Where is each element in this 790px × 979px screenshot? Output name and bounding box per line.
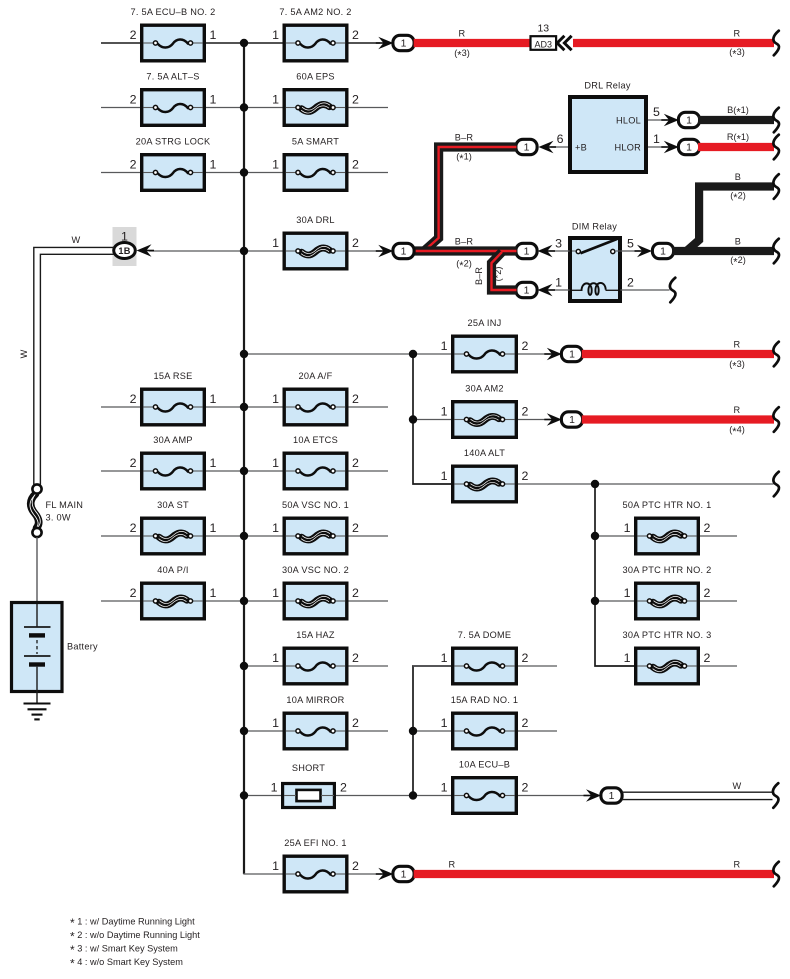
junction ptc ALT <box>591 480 599 488</box>
connector oval DRL +B <box>516 139 537 154</box>
wire B(*1) black <box>698 105 774 120</box>
wire R(*3) row1 right <box>573 29 774 61</box>
connector oval ECU-B <box>601 788 622 803</box>
svg-text:5A SMART: 5A SMART <box>292 137 339 147</box>
junction bus row5 <box>240 350 248 358</box>
svg-text:R: R <box>734 405 741 415</box>
svg-text:1: 1 <box>524 143 530 154</box>
svg-text:1: 1 <box>569 350 575 361</box>
svg-text:2: 2 <box>522 781 529 795</box>
wire B-R *1 to DRL +B <box>424 147 517 251</box>
arrow AM2 out <box>544 413 562 425</box>
svg-text:R: R <box>734 29 741 39</box>
ground <box>24 704 51 720</box>
svg-text:7. 5A ECU–B NO. 2: 7. 5A ECU–B NO. 2 <box>131 7 216 17</box>
svg-text:13: 13 <box>537 23 549 35</box>
svg-text:1: 1 <box>441 781 448 795</box>
fuse 60A EPS <box>272 72 359 126</box>
svg-text:40A P/I: 40A P/I <box>157 565 188 575</box>
svg-text:2: 2 <box>130 28 137 42</box>
fuse 30A DRL <box>272 215 359 269</box>
svg-text:1: 1 <box>524 286 530 297</box>
svg-text:2: 2 <box>522 405 529 419</box>
wire HLOR stub <box>648 146 667 148</box>
connector oval DIM5 <box>652 243 673 258</box>
arrow into DIM pin1 <box>538 284 556 296</box>
svg-text:AD3: AD3 <box>535 39 553 49</box>
fuse 10A MIRROR <box>272 695 359 749</box>
continuation DIM pin2 <box>670 278 676 303</box>
wire B(*2) lower <box>673 237 775 269</box>
wire col3 sub-bus upper <box>413 354 451 484</box>
svg-text:1: 1 <box>441 469 448 483</box>
DIM coil <box>572 283 618 295</box>
wire row6 RSE/AF <box>101 406 388 408</box>
svg-text:1: 1 <box>272 859 279 873</box>
svg-text:R: R <box>459 29 466 39</box>
junction bus row10 <box>240 662 248 670</box>
svg-text:2: 2 <box>130 586 137 600</box>
svg-text:1: 1 <box>272 28 279 42</box>
wire row7 AMP/ETCS <box>101 470 388 472</box>
svg-text:HLOL: HLOL <box>616 116 641 126</box>
arrow EFI out <box>376 868 394 880</box>
fuse 40A P/I <box>130 565 217 619</box>
svg-text:15A RSE: 15A RSE <box>153 371 192 381</box>
fuse 50A VSC NO.1 <box>272 500 359 554</box>
arrow ECU-B out <box>584 789 602 801</box>
label B-R (*2) <box>455 237 474 272</box>
connector oval DIM3 <box>516 243 537 258</box>
svg-text:1: 1 <box>686 143 692 154</box>
svg-text:1: 1 <box>272 456 279 470</box>
wire row4 1B to DRL fuse <box>149 250 381 252</box>
svg-text:1: 1 <box>271 781 278 795</box>
svg-text:1: 1 <box>210 392 217 406</box>
svg-text:1: 1 <box>441 339 448 353</box>
fuse 20A STRG LOCK <box>130 137 217 191</box>
svg-text:20A STRG LOCK: 20A STRG LOCK <box>136 137 211 147</box>
svg-text:10A ETCS: 10A ETCS <box>293 435 338 445</box>
junction bus row12 <box>240 791 248 799</box>
wire row9 P-I/VSC2/PTC2 <box>101 600 737 602</box>
svg-text:B–R: B–R <box>474 267 484 285</box>
svg-text:HLOR: HLOR <box>614 143 641 153</box>
wire AM2 30A row <box>413 419 550 421</box>
connector oval HLOL <box>678 112 699 127</box>
fuse 15A RAD NO.1 <box>441 695 529 749</box>
svg-text:W: W <box>72 235 81 245</box>
svg-text:B–R: B–R <box>455 237 474 247</box>
svg-text:2: 2 <box>130 521 137 535</box>
svg-text:1: 1 <box>653 132 660 146</box>
arrow into 1B <box>137 244 155 256</box>
arrow DRL out <box>376 245 394 257</box>
fuse 7.5A ALT-S <box>130 72 217 126</box>
svg-text:W: W <box>19 349 29 358</box>
continuation ALT <box>773 472 779 497</box>
svg-text:Battery: Battery <box>67 642 98 652</box>
arrow into DRL +B <box>539 141 557 153</box>
fuse 7.5A AM2 NO.2 <box>272 7 359 61</box>
svg-text:5: 5 <box>627 237 634 251</box>
continuation row1 <box>773 31 779 56</box>
DIM switch contact <box>572 239 620 254</box>
connector oval HLOR <box>678 139 699 154</box>
wire B-R *2 horizontal <box>414 246 517 255</box>
svg-text:30A AM2: 30A AM2 <box>465 384 504 394</box>
svg-text:30A AMP: 30A AMP <box>153 435 193 445</box>
svg-text:1: 1 <box>272 651 279 665</box>
wire R(*3) row1 left <box>414 29 531 62</box>
svg-text:2: 2 <box>627 276 634 290</box>
svg-text:1: 1 <box>401 39 407 50</box>
svg-text:2: 2 <box>522 716 529 730</box>
svg-text:1: 1 <box>401 247 407 258</box>
svg-text:1: 1 <box>401 870 407 881</box>
continuation W <box>773 783 779 808</box>
svg-text:2: 2 <box>522 469 529 483</box>
svg-text:2: 2 <box>352 716 359 730</box>
wire row13 bus corner to EFI <box>244 873 381 874</box>
fuse 7.5A ECU-B NO.2 <box>130 7 217 61</box>
connector oval AM2 <box>561 412 582 427</box>
wire HLOL stub <box>648 119 667 121</box>
svg-text:2: 2 <box>352 158 359 172</box>
svg-text:30A DRL: 30A DRL <box>296 215 335 225</box>
svg-text:(*2): (*2) <box>493 267 503 282</box>
fuse 30A AMP <box>130 435 217 489</box>
wire R(*4) AM2 <box>582 405 774 438</box>
connector 1B <box>113 227 137 266</box>
continuation B(*2) lower <box>773 239 779 264</box>
svg-text:2: 2 <box>704 586 711 600</box>
junction bus row2 <box>240 103 248 111</box>
svg-text:1: 1 <box>210 586 217 600</box>
svg-text:50A VSC NO. 1: 50A VSC NO. 1 <box>282 500 349 510</box>
wire row12 SHORT/ECU-B <box>244 795 589 797</box>
svg-text:1: 1 <box>272 521 279 535</box>
svg-text:R: R <box>734 340 741 350</box>
svg-text:25A INJ: 25A INJ <box>468 318 502 328</box>
wire DIM pin3 stub <box>550 250 570 252</box>
continuation AM2 <box>773 407 779 432</box>
svg-text:1: 1 <box>210 521 217 535</box>
arrow HLOR out <box>661 141 679 153</box>
svg-text:1: 1 <box>272 716 279 730</box>
svg-text:1: 1 <box>272 392 279 406</box>
fuse 5A SMART <box>272 137 359 191</box>
wire row1 ECU-B/AM2 <box>101 42 380 44</box>
svg-text:30A VSC NO. 2: 30A VSC NO. 2 <box>282 565 349 575</box>
svg-text:1: 1 <box>624 521 631 535</box>
svg-text:5: 5 <box>653 105 660 119</box>
svg-text:7. 5A ALT–S: 7. 5A ALT–S <box>146 72 199 82</box>
svg-text:1: 1 <box>686 116 692 127</box>
svg-text:20A A/F: 20A A/F <box>299 371 333 381</box>
svg-text:1: 1 <box>609 791 615 802</box>
fuse 7.5A DOME <box>441 630 529 684</box>
svg-text:15A HAZ: 15A HAZ <box>296 630 335 640</box>
svg-text:2: 2 <box>352 651 359 665</box>
svg-text:2: 2 <box>130 392 137 406</box>
label (*2) vertical <box>493 267 503 282</box>
relay DRL <box>557 81 660 173</box>
svg-text:2: 2 <box>352 93 359 107</box>
fusible link FL MAIN 3.0W <box>30 484 83 537</box>
svg-text:1: 1 <box>441 651 448 665</box>
svg-text:2: 2 <box>704 651 711 665</box>
label B-R vertical <box>474 267 484 285</box>
svg-text:2: 2 <box>522 339 529 353</box>
junction ptc row8 <box>591 532 599 540</box>
junction sub AM2 <box>409 415 417 423</box>
connector oval DIM1 <box>516 282 537 297</box>
svg-text:+B: +B <box>575 143 587 153</box>
wire DIM pin5 stub <box>620 250 640 252</box>
svg-text:1: 1 <box>569 415 575 426</box>
svg-text:7. 5A DOME: 7. 5A DOME <box>458 630 512 640</box>
fuse 140A ALT <box>441 448 529 502</box>
svg-text:2: 2 <box>352 586 359 600</box>
junction bus row7 <box>240 467 248 475</box>
wire DIM pin2 stub <box>620 289 669 291</box>
svg-text:10A ECU–B: 10A ECU–B <box>459 760 510 770</box>
relay DIM <box>555 222 634 302</box>
junction bus row8 <box>240 532 248 540</box>
svg-text:25A EFI NO. 1: 25A EFI NO. 1 <box>284 838 346 848</box>
fuse 30A VSC NO.2 <box>272 565 359 619</box>
continuation INJ <box>773 342 779 367</box>
junction sub row5 <box>409 350 417 358</box>
wire row8 ST/VSC1/PTC1 <box>101 535 737 537</box>
wire W ECU-B double <box>622 781 773 800</box>
fuse 30A ST <box>130 500 217 554</box>
arrow INJ out <box>544 348 562 360</box>
svg-text:1: 1 <box>272 93 279 107</box>
arrow HLOL out <box>661 114 679 126</box>
arrow into DIM pin3 <box>538 245 556 257</box>
wire DRL +B stub <box>551 146 568 148</box>
svg-text:B: B <box>735 237 741 247</box>
svg-text:1: 1 <box>524 247 530 258</box>
fuse 30A AM2 <box>441 384 529 438</box>
junction bus row4 <box>240 247 248 255</box>
fuse 30A PTC HTR NO.3 <box>622 630 711 684</box>
svg-text:3. 0W: 3. 0W <box>46 513 71 523</box>
svg-text:1: 1 <box>624 651 631 665</box>
wire R(*1) red <box>698 132 774 147</box>
svg-text:2: 2 <box>352 392 359 406</box>
fuse 25A EFI NO.1 <box>272 838 359 892</box>
arrow row1 out <box>376 37 394 49</box>
svg-text:10A MIRROR: 10A MIRROR <box>286 695 344 705</box>
junction bus row9 <box>240 597 248 605</box>
svg-text:2: 2 <box>130 93 137 107</box>
svg-text:30A PTC HTR NO. 2: 30A PTC HTR NO. 2 <box>622 565 711 575</box>
wire row11 MIRROR/RAD <box>244 730 557 732</box>
svg-text:2: 2 <box>340 781 347 795</box>
svg-text:DRL Relay: DRL Relay <box>584 81 630 91</box>
junction bus row3 <box>240 168 248 176</box>
svg-text:2: 2 <box>130 158 137 172</box>
continuation EFI <box>773 862 779 887</box>
continuation R(*1) <box>773 135 779 160</box>
svg-text:2: 2 <box>522 651 529 665</box>
svg-text:2: 2 <box>352 521 359 535</box>
battery <box>12 603 99 704</box>
continuation B(*2) upper <box>773 174 779 199</box>
svg-text:FL MAIN: FL MAIN <box>46 500 84 510</box>
svg-text:SHORT: SHORT <box>292 763 325 773</box>
wire ALT 140A output <box>518 483 774 485</box>
svg-text:1: 1 <box>210 28 217 42</box>
fuse 30A PTC HTR NO.2 <box>622 565 711 619</box>
wire FL MAIN to battery <box>36 537 38 604</box>
svg-text:7. 5A AM2 NO. 2: 7. 5A AM2 NO. 2 <box>279 7 351 17</box>
connector oval EFI <box>393 866 414 881</box>
svg-text:W: W <box>733 781 742 791</box>
svg-text:15A RAD NO. 1: 15A RAD NO. 1 <box>451 695 519 705</box>
fuse 50A PTC HTR NO.1 <box>622 500 711 554</box>
svg-text:B–R: B–R <box>455 133 474 143</box>
svg-text:2: 2 <box>352 28 359 42</box>
connector oval INJ <box>561 346 582 361</box>
svg-text:R: R <box>449 860 456 870</box>
continuation B(*1) <box>773 108 779 133</box>
fuse 25A INJ <box>441 318 529 372</box>
svg-text:1: 1 <box>624 586 631 600</box>
wire col3 sub-bus lower <box>413 666 451 796</box>
connector AD3 <box>531 23 557 50</box>
svg-text:1: 1 <box>210 456 217 470</box>
fuse 10A ECU-B <box>441 760 529 814</box>
connector oval row1 <box>393 35 414 50</box>
label W horizontal <box>72 235 81 245</box>
wire DIM pin1 stub <box>550 289 570 291</box>
svg-text:2: 2 <box>352 456 359 470</box>
svg-text:1: 1 <box>555 276 562 290</box>
svg-text:1: 1 <box>660 247 666 258</box>
svg-text:1: 1 <box>272 158 279 172</box>
fuse 15A RSE <box>130 371 217 425</box>
fuse 10A ETCS <box>272 435 359 489</box>
svg-text:2: 2 <box>704 521 711 535</box>
svg-text:1B: 1B <box>118 246 130 256</box>
svg-text:2: 2 <box>130 456 137 470</box>
svg-text:2: 2 <box>352 859 359 873</box>
svg-text:30A PTC HTR NO. 3: 30A PTC HTR NO. 3 <box>622 630 711 640</box>
wire row5 bus to INJ <box>244 353 550 355</box>
svg-text:R: R <box>734 860 741 870</box>
wire R EFI <box>414 860 774 875</box>
svg-text:30A ST: 30A ST <box>157 500 189 510</box>
wire row2 ALT-S/EPS <box>101 107 388 109</box>
fuse 20A A/F <box>272 371 359 425</box>
wire main bus vertical <box>243 43 245 874</box>
wire R(*3) INJ <box>582 340 774 373</box>
svg-text:B: B <box>735 172 741 182</box>
wire B-R *2 drop <box>492 252 517 290</box>
connector oval DRL out <box>393 243 414 258</box>
fuse 15A HAZ <box>272 630 359 684</box>
wire B(*2) upper <box>687 172 775 251</box>
svg-text:3: 3 <box>555 237 562 251</box>
wire row3 STRG/SMART <box>101 172 388 174</box>
svg-text:1: 1 <box>210 158 217 172</box>
label W vertical <box>19 349 29 358</box>
junction sub row12 <box>409 791 417 799</box>
svg-text:DIM Relay: DIM Relay <box>572 222 617 232</box>
arrow DIM5 out <box>635 245 653 257</box>
svg-text:50A PTC HTR NO. 1: 50A PTC HTR NO. 1 <box>622 500 711 510</box>
footnotes <box>70 916 200 971</box>
chevrons AD3 <box>557 36 571 50</box>
svg-text:1: 1 <box>441 716 448 730</box>
svg-text:60A EPS: 60A EPS <box>296 72 335 82</box>
junction sub row11 <box>409 727 417 735</box>
svg-text:140A ALT: 140A ALT <box>464 448 505 458</box>
svg-text:1: 1 <box>272 236 279 250</box>
svg-text:6: 6 <box>557 132 564 146</box>
wire row10 HAZ/DOME/PTC3 <box>244 665 737 667</box>
label B-R (*1) <box>455 133 474 165</box>
svg-text:1: 1 <box>441 405 448 419</box>
junction ptc row9 <box>591 597 599 605</box>
fuse SHORT <box>271 763 347 808</box>
junction bus row6 <box>240 403 248 411</box>
wire PTC branch vertical <box>595 484 634 666</box>
junction bus row11 <box>240 727 248 735</box>
svg-text:1: 1 <box>272 586 279 600</box>
junction bus row1 <box>240 39 248 47</box>
svg-text:2: 2 <box>352 236 359 250</box>
svg-text:1: 1 <box>210 93 217 107</box>
wire W double line <box>34 247 114 484</box>
